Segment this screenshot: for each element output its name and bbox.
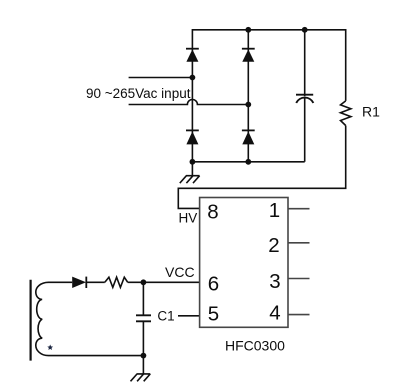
svg-text:3: 3 <box>269 270 280 293</box>
svg-text:90 ~265Vac input: 90 ~265Vac input <box>86 86 191 101</box>
svg-text:4: 4 <box>269 302 280 325</box>
svg-text:6: 6 <box>208 273 219 296</box>
svg-text:5: 5 <box>208 302 219 325</box>
svg-text:HFC0300: HFC0300 <box>225 338 285 354</box>
svg-text:8: 8 <box>207 200 218 223</box>
svg-text:VCC: VCC <box>165 264 195 280</box>
svg-text:2: 2 <box>268 234 279 257</box>
svg-text:C1: C1 <box>157 308 174 323</box>
svg-text:1: 1 <box>269 199 280 222</box>
svg-text:HV: HV <box>179 210 198 225</box>
svg-text:R1: R1 <box>362 104 380 120</box>
